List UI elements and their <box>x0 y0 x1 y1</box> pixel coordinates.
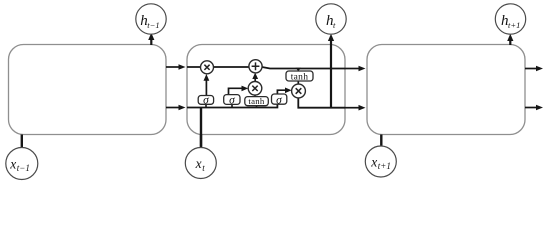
wire: stub h line into sigma1 <box>205 104 207 108</box>
wire: C line exit arrow right of right cell <box>525 66 543 72</box>
gate: x2 pointwise multiply (input gate) <box>248 82 262 96</box>
svg-text:t−1: t−1 <box>147 20 159 30</box>
wire: x3 gate down to h line segment B and out to right edge <box>298 98 345 108</box>
wire: h line left-cell to middle-cell with arrowhead <box>166 105 186 111</box>
svg-text:t+1: t+1 <box>508 20 520 30</box>
wire: h_t output vertical from h line up through cell to h_t circle <box>328 34 334 108</box>
node: x_{t+1} input circle with stub <box>365 135 396 178</box>
wire: h line exit arrow right of right cell <box>525 105 543 111</box>
gate: + pointwise add on C line <box>249 60 262 73</box>
wire: sigma1 up-arrow into x1 gate <box>204 74 210 96</box>
wire: h line inside middle cell (segment A ending up into sigma3) <box>187 104 277 108</box>
svg-text:t−1: t−1 <box>17 163 30 173</box>
svg-text:x: x <box>370 154 377 169</box>
left LSTM cell <box>9 45 167 135</box>
wire: output tanh down into x3 gate <box>297 81 299 85</box>
node: h_t output circle <box>316 4 346 34</box>
wire: C line junction down-arrow into output tanh <box>296 68 302 72</box>
box: sigma2 input gate <box>224 95 240 107</box>
svg-text:x: x <box>9 156 16 171</box>
wire: C line left-cell to middle-cell with arrowhead <box>166 64 186 70</box>
node: x_{t-1} input circle with stub <box>6 135 38 180</box>
wire: candidate tanh up into x2 gate (touching) <box>254 95 256 97</box>
wire: x2 up-arrow into + gate <box>252 73 258 82</box>
box: output tanh on C branch <box>286 71 313 83</box>
box: sigma3 output gate <box>272 94 287 107</box>
wire: sigma3 elbow arrow into x3 gate <box>277 88 291 95</box>
node: h_{t-1} output circle with up arrow <box>136 4 166 45</box>
wire: C line inside middle cell (left edge through x1 and + then slight drop) <box>187 67 345 69</box>
middle LSTM cell <box>187 45 345 135</box>
box: sigma1 forget gate <box>198 95 213 107</box>
box: candidate tanh <box>245 96 268 106</box>
gate: x1 pointwise multiply on C line <box>201 61 214 74</box>
node: h_{t+1} output circle with up arrow <box>495 4 525 45</box>
svg-text:tanh: tanh <box>291 73 309 83</box>
right LSTM cell <box>367 45 525 135</box>
node: x_t input circle with stub <box>185 135 216 179</box>
wire: stub h line into sigma2 <box>231 104 233 107</box>
wire: sigma2 elbow arrow into x2 gate <box>229 86 249 95</box>
wire: x_t input vertical up to h line <box>200 108 202 148</box>
svg-text:x: x <box>195 156 202 171</box>
gate: x3 pointwise multiply (output gate) <box>292 84 306 98</box>
svg-text:tanh: tanh <box>248 96 264 106</box>
wire: stub h line into candidate tanh <box>256 106 258 108</box>
wire: C line middle-cell to right-cell with arrowhead <box>345 66 366 72</box>
wire: h line middle-cell to right-cell with arrowhead <box>345 105 366 111</box>
svg-text:t+1: t+1 <box>378 161 391 171</box>
